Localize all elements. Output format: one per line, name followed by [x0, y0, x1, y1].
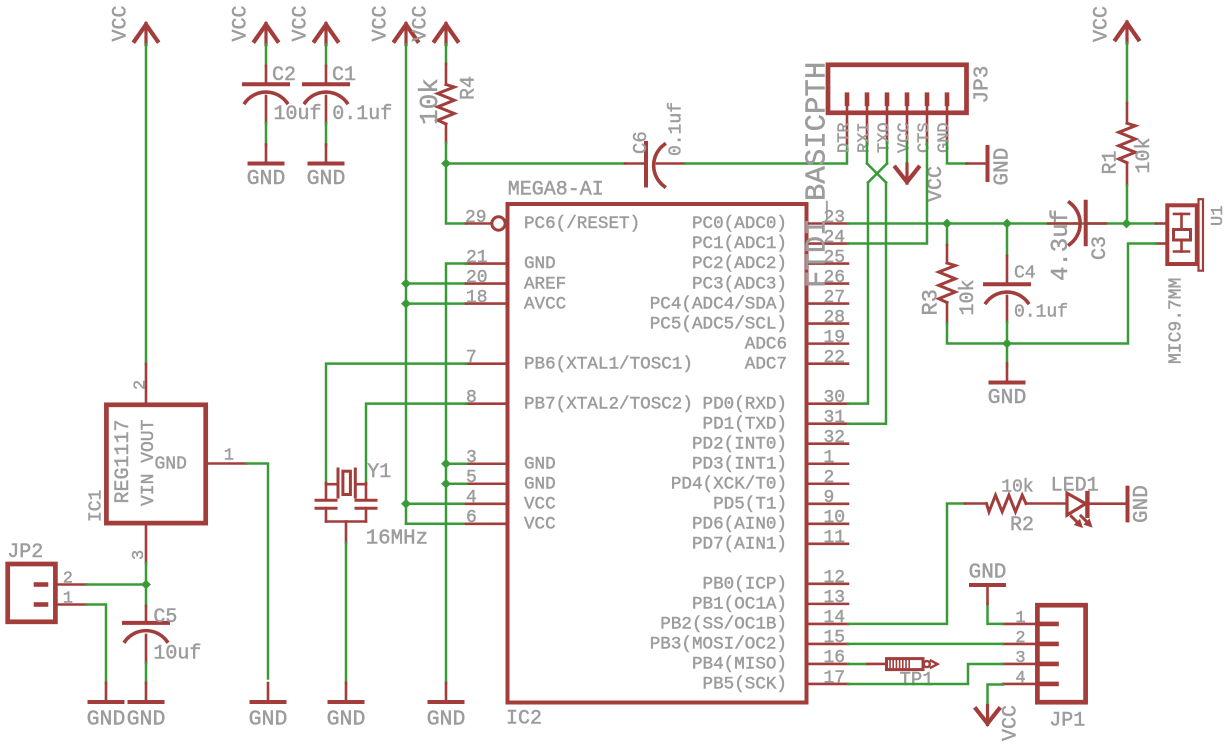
pin 26 stub (right)	[807, 282, 848, 285]
label R2	[1010, 514, 1034, 537]
power flag VCC (C1)	[290, 5, 338, 44]
value 10uf (C5)	[153, 643, 201, 666]
pin name PC6(/RESET)	[524, 214, 640, 234]
ground GND (C4)	[988, 364, 1027, 411]
label C1	[332, 64, 356, 87]
svg-text:32: 32	[824, 428, 846, 448]
svg-text:VCC: VCC	[1090, 6, 1113, 42]
pin name PB3(MOSI/OC2)	[650, 635, 787, 655]
wire JP2 pin1 to GND	[86, 605, 106, 684]
JP3 pin bar 6	[945, 95, 950, 143]
svg-text:16MHz: 16MHz	[366, 527, 428, 550]
wire pin 21 GND rail	[446, 264, 466, 684]
svg-text:TP1: TP1	[900, 669, 934, 691]
pin number 14	[824, 608, 846, 628]
power flag VCC (to IC1 VIN)	[110, 5, 158, 44]
svg-text:GND: GND	[524, 254, 556, 274]
pin number 9	[824, 488, 835, 508]
pin number 3 (JP1)	[1015, 649, 1025, 668]
svg-text:PB3(MOSI/OC2): PB3(MOSI/OC2)	[650, 635, 787, 655]
svg-text:0.1uf: 0.1uf	[332, 103, 392, 126]
pin name PB4(MISO)	[692, 655, 787, 675]
wire IC1 pin3 to junction	[145, 563, 148, 585]
svg-text:IC2: IC2	[506, 708, 542, 731]
svg-text:29: 29	[465, 208, 487, 228]
label R4	[458, 76, 481, 100]
power flag VCC (R1)	[1090, 6, 1138, 43]
svg-text:JP1: JP1	[1049, 710, 1085, 733]
pin 29 stub with bubble	[466, 217, 505, 230]
pin name PC0(ADC0)	[692, 214, 787, 234]
svg-text:ADC7: ADC7	[745, 354, 787, 374]
svg-text:RXI: RXI	[856, 122, 875, 153]
value 10k (R4)	[415, 78, 445, 125]
svg-text:PC3(ADC3): PC3(ADC3)	[692, 274, 787, 294]
junction at AREF	[401, 279, 411, 289]
pin name PB1(OC1A)	[692, 595, 787, 615]
value 0.1uf (C1)	[332, 103, 392, 126]
connector JP1 body	[1037, 605, 1085, 702]
test point TP1	[848, 659, 938, 670]
junction reset net	[441, 159, 451, 169]
svg-text:19: 19	[824, 328, 846, 348]
svg-text:PC2(ADC2): PC2(ADC2)	[692, 254, 787, 274]
U1 electret symbol	[1174, 214, 1191, 252]
wire rail to pin 3	[446, 462, 466, 465]
resistor R1	[1119, 103, 1136, 185]
pin name PC5(ADC5/SCL)	[650, 314, 787, 334]
svg-text:31: 31	[824, 408, 846, 428]
label IC1	[87, 490, 107, 522]
pin 10 stub (right)	[807, 522, 848, 525]
pin number 1 (JP2)	[63, 590, 73, 609]
label JP3	[972, 66, 995, 104]
svg-text:R1: R1	[1100, 150, 1123, 174]
svg-text:VCC: VCC	[370, 5, 393, 41]
junction VIN/C5	[141, 580, 151, 590]
pin name PC1(ADC1)	[692, 234, 787, 254]
pin number 2 (JP1)	[1015, 629, 1025, 648]
pin number 2 (IC1)	[132, 380, 151, 390]
pin name PD7(AIN1)	[692, 535, 787, 555]
wire pin 7 to Y1	[326, 364, 466, 484]
ground GND (LED1)	[1128, 485, 1155, 523]
U1 pin 1 stub	[1156, 222, 1167, 225]
svg-text:PB0(ICP): PB0(ICP)	[703, 575, 787, 595]
JP1 pin bar 4	[1003, 682, 1057, 687]
svg-text:21: 21	[466, 248, 488, 268]
svg-text:GND: GND	[427, 707, 466, 731]
wire JP2 pin2 to VIN	[86, 583, 146, 586]
pin name AREF r3	[524, 274, 566, 294]
JP1 pin bar 3	[1003, 662, 1057, 667]
JP3 pin bar 1	[845, 95, 850, 143]
resistor R4	[438, 64, 455, 143]
svg-text:MEGA8-AI: MEGA8-AI	[508, 179, 604, 202]
pin 18 stub (left)	[466, 302, 507, 305]
svg-text:10k: 10k	[1001, 478, 1033, 498]
capacitor C1	[304, 66, 348, 123]
svg-text:R4: R4	[458, 76, 481, 100]
pin 30 stub (right)	[807, 402, 848, 405]
svg-text:C3: C3	[1089, 236, 1112, 260]
svg-text:VCC: VCC	[925, 166, 948, 202]
label R1	[1100, 150, 1123, 174]
pin 21 stub (left)	[466, 262, 507, 265]
svg-text:TXO: TXO	[876, 122, 895, 153]
pin 1 stub (right)	[807, 462, 848, 465]
junction R3	[942, 219, 952, 229]
svg-text:C2: C2	[272, 64, 296, 87]
ground GND (Y1)	[327, 683, 366, 731]
svg-text:C6: C6	[630, 131, 652, 154]
wire C6 to DTR	[685, 143, 847, 164]
svg-text:VCC: VCC	[524, 494, 556, 514]
ground GND (rail)	[427, 683, 466, 731]
wire VCC rail down to pin 6	[405, 45, 408, 524]
pin name VCC r14	[524, 494, 556, 514]
junction GND pin 3	[441, 459, 451, 469]
pin number 5	[466, 468, 477, 488]
JP3 pin bar 4	[905, 95, 910, 143]
svg-text:C4: C4	[1014, 263, 1036, 283]
pin 32 stub (right)	[807, 442, 848, 445]
pin number 11	[824, 528, 846, 548]
svg-text:PB5(SCK): PB5(SCK)	[703, 675, 787, 695]
junction GND pin 5	[441, 479, 451, 489]
svg-text:VCC: VCC	[524, 515, 556, 535]
svg-text:17: 17	[824, 668, 846, 688]
pin 9 stub (right)	[807, 502, 848, 505]
svg-text:2: 2	[132, 380, 151, 390]
wire reset net to C6	[446, 162, 625, 165]
svg-text:PC5(ADC5/SCL): PC5(ADC5/SCL)	[650, 314, 787, 334]
ground GND (JP2)	[87, 683, 126, 731]
JP1 pin bar 2	[1003, 642, 1057, 647]
pin 6 stub (left)	[466, 522, 507, 525]
pin number 12	[824, 568, 846, 588]
svg-text:3: 3	[130, 550, 149, 560]
wire JP1 pin1 to GND	[988, 604, 1004, 624]
microphone U1 body	[1167, 199, 1203, 271]
label C3	[1089, 236, 1112, 260]
pin number 10	[824, 508, 846, 528]
pin number 31	[824, 408, 846, 428]
label VIN VOUT	[139, 419, 159, 506]
svg-text:2: 2	[63, 570, 73, 589]
svg-text:PB6(XTAL1/TOSC1): PB6(XTAL1/TOSC1)	[524, 354, 693, 374]
value 10k (R3)	[957, 279, 980, 315]
svg-text:VCC: VCC	[896, 122, 915, 153]
svg-text:3: 3	[466, 448, 477, 468]
pin 22 stub (right)	[807, 362, 848, 365]
pin number 2	[824, 468, 835, 488]
capacitor C4	[985, 224, 1029, 344]
wire VCC to R4	[445, 45, 448, 65]
svg-text:7: 7	[466, 348, 477, 368]
label IC2	[506, 708, 542, 731]
label FTDI_BASICPTH	[801, 62, 834, 288]
svg-text:GND: GND	[936, 122, 955, 153]
pin 13 stub (right)	[807, 603, 848, 606]
pin name PC4(ADC4/SDA)	[650, 294, 787, 314]
pin name PD0(RXD)	[703, 394, 787, 414]
pin number 1 (IC1)	[224, 447, 234, 466]
pin number 4	[466, 488, 477, 508]
svg-text:28: 28	[824, 308, 846, 328]
pin name ADC7	[745, 354, 787, 374]
pin name PD2(INT0)	[692, 434, 787, 454]
pin number 18	[466, 288, 488, 308]
svg-text:GND: GND	[249, 707, 288, 731]
wire RXI down	[866, 143, 869, 164]
svg-text:10k: 10k	[1133, 137, 1156, 173]
label JP2	[7, 541, 43, 564]
pin 11 stub (right)	[807, 543, 848, 546]
resistor R3	[939, 224, 1007, 344]
resistor R2	[965, 495, 1026, 512]
wire Y1 to GND	[345, 543, 348, 684]
svg-text:VCC: VCC	[290, 5, 313, 41]
JP3 pin label TXO	[876, 122, 895, 153]
svg-text:1: 1	[224, 447, 234, 466]
junction R1/C3	[1122, 219, 1132, 229]
svg-text:GND: GND	[327, 707, 366, 731]
pin name PB0(ICP)	[703, 575, 787, 595]
svg-text:DTR: DTR	[836, 122, 855, 153]
power flag VCC (AVCC rail)	[370, 5, 418, 44]
pin name AVCC r4	[524, 294, 566, 314]
wire IC1 pin1 to GND	[246, 464, 268, 679]
svg-text:PD6(AIN0): PD6(AIN0)	[692, 515, 787, 535]
svg-text:30: 30	[824, 388, 846, 408]
svg-text:9: 9	[824, 488, 835, 508]
pin number 27	[824, 288, 846, 308]
label C5	[153, 606, 177, 629]
pin number 32	[824, 428, 846, 448]
svg-text:MIC9.7MM: MIC9.7MM	[1167, 278, 1187, 364]
IC1 body (REG1117)	[106, 405, 205, 523]
svg-text:1: 1	[63, 590, 73, 609]
label MIC9.7MM	[1167, 278, 1187, 364]
wire VCC to IC1 pin 2	[145, 45, 148, 365]
pin 25 stub (right)	[807, 262, 848, 265]
svg-text:GND: GND	[307, 167, 346, 191]
pin number 6	[466, 508, 477, 528]
svg-text:16: 16	[824, 648, 846, 668]
pin 16 stub (right)	[807, 663, 848, 666]
svg-text:2: 2	[824, 468, 835, 488]
wire pin 8 to Y1	[366, 404, 466, 484]
ground GND (C1)	[307, 145, 346, 191]
svg-text:PD0(RXD): PD0(RXD)	[703, 394, 787, 414]
pin number 20	[466, 268, 488, 288]
wire TXO down	[886, 143, 889, 164]
wire rail to VCC pin 6	[406, 523, 466, 526]
svg-text:3: 3	[1015, 649, 1025, 668]
pin number 4 (JP1)	[1015, 669, 1025, 688]
svg-text:LED1: LED1	[1051, 475, 1099, 498]
pin 3 stub IC1	[145, 524, 148, 563]
svg-text:IC1: IC1	[87, 490, 107, 522]
label U1	[1209, 206, 1226, 226]
pin number 28	[824, 308, 846, 328]
pin number 1 (JP1)	[1015, 609, 1025, 628]
svg-text:GND: GND	[87, 707, 126, 731]
junction C4/R3 bottom	[1002, 339, 1012, 349]
svg-text:PD3(INT1): PD3(INT1)	[692, 454, 787, 474]
pin number 15	[824, 628, 846, 648]
pin number 24	[824, 228, 846, 248]
JP3 pin label VCC	[896, 122, 915, 153]
wire junction to C5	[145, 585, 148, 607]
pin number 7	[466, 348, 477, 368]
pin number 13	[824, 588, 846, 608]
pin name PB6(XTAL1/TOSC1) r7	[524, 354, 693, 374]
svg-text:10k: 10k	[957, 279, 980, 315]
pin number 22	[824, 348, 846, 368]
JP3 pin bar 5	[925, 95, 930, 143]
svg-text:PD4(XCK/T0): PD4(XCK/T0)	[671, 474, 787, 494]
label C6	[630, 131, 652, 154]
pin name PB5(SCK)	[703, 675, 787, 695]
pin number 2 (JP2)	[63, 570, 73, 589]
svg-text:8: 8	[466, 388, 477, 408]
svg-text:Y1: Y1	[367, 461, 391, 484]
wire pin 15 to JP1 pin2	[848, 643, 1003, 646]
svg-text:4.3uf: 4.3uf	[1048, 209, 1075, 281]
svg-text:PD7(AIN1): PD7(AIN1)	[692, 535, 787, 555]
junction at VCC pin 4	[401, 499, 411, 509]
value 10k (R2)	[1001, 478, 1033, 498]
capacitor C5	[124, 606, 168, 663]
wire JP3 GND pin	[947, 143, 967, 164]
svg-text:PB4(MISO): PB4(MISO)	[692, 655, 787, 675]
svg-text:ADC6: ADC6	[745, 334, 787, 354]
svg-text:0.1uf: 0.1uf	[667, 102, 687, 156]
pin 27 stub (right)	[807, 302, 848, 305]
wire C1 to GND	[325, 123, 328, 146]
pin name GND r12	[524, 454, 556, 474]
power flag VCC down (JP3)	[896, 164, 949, 202]
svg-text:JP3: JP3	[972, 66, 995, 104]
ground GND (JP1 pin1)	[969, 562, 1007, 604]
svg-text:GND: GND	[524, 454, 556, 474]
wire rail to pin 5	[446, 483, 466, 486]
svg-text:1: 1	[824, 448, 835, 468]
wire JP1 pin4 to VCC	[988, 685, 1004, 703]
svg-text:GND: GND	[524, 474, 556, 494]
svg-text:VCC: VCC	[110, 5, 133, 41]
pin name PB2(SS/OC1B)	[660, 615, 787, 635]
svg-text:PC6(/RESET): PC6(/RESET)	[524, 214, 640, 234]
pin number 17	[824, 668, 846, 688]
power flag VCC (R4)	[410, 5, 458, 44]
pin name PC3(ADC3)	[692, 274, 787, 294]
label R3	[919, 289, 944, 315]
label C4	[1014, 263, 1036, 283]
svg-text:13: 13	[824, 588, 846, 608]
wire junction to GND	[1006, 344, 1009, 367]
wire JP3 VCC pin	[906, 143, 909, 165]
svg-text:GND: GND	[992, 148, 1015, 186]
value 10k (R1)	[1133, 137, 1156, 173]
value 4.3uf (C3)	[1048, 209, 1075, 281]
svg-text:4: 4	[1015, 669, 1025, 688]
ground GND (C2)	[247, 145, 286, 191]
pin number 19	[824, 328, 846, 348]
JP3 pin label RXI	[856, 122, 875, 153]
svg-text:10uf: 10uf	[274, 103, 322, 126]
pin number 23	[824, 208, 846, 228]
wire CTS to pin 24	[848, 143, 927, 244]
svg-text:1: 1	[1015, 609, 1025, 628]
pin number 26	[824, 268, 846, 288]
pin 20 stub (left)	[466, 282, 507, 285]
label MEGA8-AI	[508, 179, 604, 202]
wire VCC to R1	[1126, 43, 1129, 103]
svg-text:PD5(T1): PD5(T1)	[713, 494, 787, 514]
svg-text:AREF: AREF	[524, 274, 566, 294]
pin 2 stub of IC1	[145, 364, 148, 403]
svg-text:JP2: JP2	[7, 541, 43, 564]
pin name GND r13	[524, 474, 556, 494]
IC2 body (MEGA8-AI)	[508, 204, 807, 703]
wire TXO crossover diagonal	[868, 164, 887, 183]
pin 12 stub (right)	[807, 583, 848, 586]
wire C5 to GND	[145, 663, 148, 684]
svg-text:14: 14	[824, 608, 846, 628]
wire C2 to GND	[265, 123, 268, 146]
JP2 pin bar 1	[36, 602, 86, 607]
pin name PD4(XCK/T0)	[671, 474, 787, 494]
wire PC0 net (pin 23 to MIC)	[848, 222, 1156, 225]
ground GND (JP3)	[967, 147, 1015, 186]
pin number 30	[824, 388, 846, 408]
svg-text:4: 4	[466, 488, 477, 508]
JP3 pin label DTR	[836, 122, 855, 153]
svg-text:GND: GND	[969, 562, 1007, 585]
pin number 29	[465, 208, 487, 228]
svg-text:PC4(ADC4/SDA): PC4(ADC4/SDA)	[650, 294, 787, 314]
pin number 3 (IC1)	[130, 550, 149, 560]
svg-text:FTDI_BASICPTH: FTDI_BASICPTH	[801, 62, 834, 288]
svg-text:GND: GND	[155, 455, 187, 475]
pin number 3	[466, 448, 477, 468]
svg-text:CTS: CTS	[916, 122, 935, 153]
pin name PD6(AIN0)	[692, 515, 787, 535]
ground GND (IC1 pin1)	[249, 683, 288, 731]
svg-text:10uf: 10uf	[153, 643, 201, 666]
svg-text:VCC: VCC	[1000, 705, 1023, 741]
svg-text:5: 5	[466, 468, 477, 488]
pin number 8	[466, 388, 477, 408]
pin name PC2(ADC2)	[692, 254, 787, 274]
wire RXI crossover diagonal	[867, 164, 886, 183]
pin name ADC6	[745, 334, 787, 354]
svg-text:20: 20	[466, 268, 488, 288]
value 0.1uf (C6)	[667, 102, 687, 156]
svg-text:10k: 10k	[415, 78, 445, 125]
pin 24 stub (right)	[807, 242, 848, 245]
svg-text:11: 11	[824, 528, 846, 548]
svg-text:VCC: VCC	[230, 5, 253, 41]
wire RXI to pin 31 (TXD)	[848, 183, 886, 424]
svg-text:PD2(INT0): PD2(INT0)	[692, 434, 787, 454]
pin 4 stub (left)	[466, 502, 507, 505]
svg-text:REG1117: REG1117	[112, 419, 135, 503]
wire R1 to junction	[1126, 185, 1129, 224]
